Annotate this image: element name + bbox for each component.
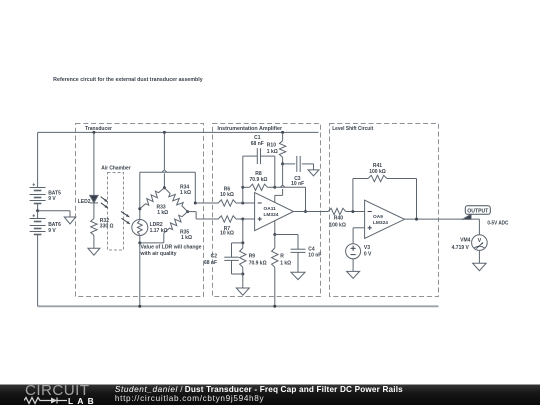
svg-text:4.719 V: 4.719 V	[452, 245, 470, 251]
svg-text:R41: R41	[373, 163, 382, 169]
svg-text:68 nF: 68 nF	[251, 141, 264, 147]
svg-text:100 kΩ: 100 kΩ	[369, 169, 386, 175]
svg-text:with air quality: with air quality	[139, 251, 176, 257]
svg-text:100 kΩ: 100 kΩ	[329, 222, 346, 228]
svg-text:1 kΩ: 1 kΩ	[267, 149, 278, 155]
svg-text:10 kΩ: 10 kΩ	[220, 231, 234, 237]
svg-text:0 V: 0 V	[364, 251, 372, 257]
svg-text:OA11: OA11	[264, 206, 277, 212]
svg-text:Transducer: Transducer	[85, 126, 112, 132]
svg-text:R40: R40	[334, 216, 343, 222]
svg-text:70.9 kΩ: 70.9 kΩ	[250, 177, 268, 183]
svg-text:R10: R10	[267, 142, 276, 148]
svg-text:R9: R9	[249, 254, 256, 260]
svg-text:LDR2: LDR2	[150, 222, 163, 228]
svg-text:Instrumentation Amplifier: Instrumentation Amplifier	[217, 126, 282, 132]
svg-text:Level Shift Circuit: Level Shift Circuit	[332, 126, 373, 132]
svg-text:OUTPUT: OUTPUT	[467, 208, 488, 214]
svg-text:1.17 kΩ: 1.17 kΩ	[150, 228, 168, 234]
svg-text:C1: C1	[254, 135, 261, 141]
svg-text:1 kΩ: 1 kΩ	[280, 261, 291, 267]
svg-text:10 nF: 10 nF	[308, 252, 321, 258]
svg-text:9 V: 9 V	[48, 228, 56, 234]
svg-text:Air Chamber: Air Chamber	[101, 165, 131, 171]
svg-text:68 nF: 68 nF	[204, 260, 217, 266]
svg-text:C2: C2	[211, 254, 218, 260]
svg-text:LM324: LM324	[373, 220, 388, 226]
svg-text:10 nF: 10 nF	[291, 181, 304, 187]
svg-text:Value of LDR will change: Value of LDR will change	[141, 244, 202, 250]
svg-text:1 kΩ: 1 kΩ	[157, 210, 168, 216]
svg-text:LED2: LED2	[78, 199, 91, 205]
svg-text:V: V	[478, 238, 482, 244]
svg-text:9 V: 9 V	[48, 196, 56, 202]
svg-text:330 Ω: 330 Ω	[100, 224, 114, 230]
svg-text:V3: V3	[364, 245, 370, 251]
svg-text:+: +	[32, 183, 35, 189]
svg-text:R: R	[280, 254, 284, 260]
svg-text:1 kΩ: 1 kΩ	[180, 190, 191, 196]
svg-text:70.9 kΩ: 70.9 kΩ	[249, 261, 267, 267]
svg-text:Reference circuit for the exte: Reference circuit for the external dust …	[53, 77, 203, 83]
svg-text:OA9: OA9	[373, 214, 383, 220]
svg-text:LM324: LM324	[264, 212, 279, 218]
svg-text:VM4: VM4	[460, 238, 471, 244]
svg-text:10 kΩ: 10 kΩ	[220, 192, 234, 198]
svg-text:0-5V ADC: 0-5V ADC	[487, 221, 508, 227]
svg-text:1 kΩ: 1 kΩ	[181, 235, 192, 241]
